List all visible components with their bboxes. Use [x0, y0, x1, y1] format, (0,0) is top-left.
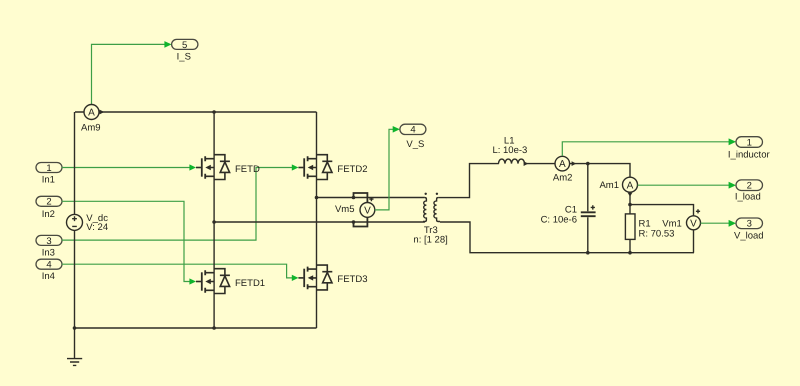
- svg-text:V_S: V_S: [406, 139, 424, 150]
- svg-text:FETD3: FETD3: [337, 274, 367, 285]
- junction dot bottom bus / left leg: [212, 326, 216, 330]
- svg-text:A: A: [627, 180, 634, 191]
- svg-text:3: 3: [747, 219, 752, 230]
- capacitor C1 branch: [541, 164, 596, 253]
- svg-text:I_inductor: I_inductor: [728, 150, 770, 161]
- transformer Tr3 labels: [413, 225, 447, 245]
- wire: right leg midpoint to transformer primary top: [317, 197, 425, 199]
- svg-text:A: A: [88, 108, 95, 119]
- svg-text:A: A: [559, 159, 566, 170]
- input port In2: [36, 196, 62, 220]
- wire: secondary bottom lead and output bottom rail: [440, 222, 694, 253]
- output port 3 (V_load): [734, 218, 764, 242]
- wire: green Am1 to port 2: [638, 182, 736, 189]
- wire: Vm5 output to port 4: [375, 126, 400, 210]
- wire: Am1 down to node with direction arrow: [629, 192, 631, 205]
- transformer Tr3 primary winding: [423, 193, 427, 222]
- svg-text:I_S: I_S: [177, 52, 191, 63]
- wire: green Am2 to port 1: [562, 138, 736, 156]
- svg-text:1: 1: [747, 138, 752, 149]
- svg-text:n: [1 28]: n: [1 28]: [413, 234, 447, 245]
- wire: top DC bus: [75, 111, 317, 113]
- junction dot R1 bottom: [628, 251, 632, 255]
- current direction arrow after Am9: [100, 110, 105, 115]
- node junction below Am1: [628, 203, 632, 207]
- wire: left leg midpoint to transformer primary bottom: [214, 221, 425, 223]
- junction dot Vm5 bottom: [352, 220, 356, 224]
- voltmeter Vm5: [335, 203, 375, 218]
- svg-text:FETD: FETD: [235, 164, 260, 175]
- junction dot C1 bottom: [586, 251, 590, 255]
- MOSFET FETD3 (bottom-right): [298, 265, 367, 290]
- svg-text:4: 4: [410, 125, 415, 136]
- svg-text:2: 2: [747, 181, 752, 192]
- wire: In3 to FETD2 gate: [62, 164, 299, 240]
- output port 5 (I_S): [172, 39, 198, 62]
- svg-text:Vm5: Vm5: [335, 204, 355, 215]
- svg-text:FETD2: FETD2: [337, 164, 367, 175]
- junction dot right leg midpoint: [315, 196, 319, 200]
- output port 4 (V_S): [400, 124, 426, 150]
- wire: L1 to Am2 with direction arrow: [524, 163, 555, 165]
- junction dot Vm5 top: [352, 196, 356, 200]
- wire: secondary top lead up to L1: [438, 164, 499, 198]
- MOSFET FETD1 (bottom-left): [196, 269, 265, 294]
- voltmeter Vm5 terminal brackets: [354, 193, 368, 227]
- input port In1: [36, 163, 62, 186]
- MOSFET FETD2 (top-right): [298, 155, 367, 180]
- svg-text:2: 2: [46, 197, 51, 208]
- input port In3: [36, 235, 62, 258]
- svg-text:V: 24: V: 24: [86, 222, 108, 233]
- voltmeter Vm1: [662, 209, 700, 230]
- input port In4: [36, 259, 62, 282]
- svg-text:In1: In1: [42, 175, 55, 186]
- svg-text:3: 3: [46, 236, 51, 247]
- svg-text:V_load: V_load: [734, 231, 764, 242]
- wire: In2 to FETD1 gate: [62, 201, 196, 284]
- resistor R1: [625, 205, 674, 253]
- junction dot C1 top: [586, 162, 590, 166]
- svg-text:In2: In2: [42, 209, 55, 220]
- wire: In4 to FETD3 gate: [62, 264, 299, 281]
- DC voltage source V_dc: [67, 213, 109, 233]
- svg-text:V: V: [364, 205, 371, 216]
- svg-text:Vm1: Vm1: [662, 219, 682, 230]
- junction dot top bus / left leg: [212, 110, 216, 114]
- svg-text:C: 10e-6: C: 10e-6: [541, 215, 577, 226]
- svg-text:5: 5: [182, 40, 187, 51]
- wire: green from Am9 up to port 5: [92, 41, 172, 104]
- inductor L1: [492, 135, 527, 163]
- svg-text:L: 10e-3: L: 10e-3: [492, 145, 527, 156]
- wire: bottom DC bus: [75, 327, 317, 329]
- transformer Tr3 secondary winding: [434, 193, 440, 222]
- svg-text:In3: In3: [42, 247, 55, 258]
- svg-text:Am1: Am1: [599, 180, 619, 191]
- ammeter Am9: [81, 105, 101, 134]
- svg-text:4: 4: [46, 260, 51, 271]
- wire: right bridge leg: [316, 112, 318, 328]
- wire: green Vm1 to port 3: [701, 220, 737, 227]
- svg-text:I_load: I_load: [735, 191, 761, 202]
- wire: node to Vm1 top: [630, 205, 694, 216]
- svg-text:Am9: Am9: [81, 122, 101, 133]
- wire: left bridge leg: [213, 112, 215, 328]
- svg-text:1: 1: [46, 163, 51, 174]
- ammeter Am2: [553, 156, 573, 183]
- ammeter Am1: [599, 177, 637, 192]
- wire: Vm1 bottom to rail: [693, 230, 695, 253]
- svg-text:R: 70.53: R: 70.53: [639, 229, 675, 240]
- wire: left source rail: [74, 112, 76, 328]
- wire: In1 to FETD gate: [62, 164, 196, 170]
- ground: [67, 328, 82, 365]
- wire: Am2 to Am1 corner with direction arrow: [570, 164, 630, 178]
- MOSFET FETD (top-left): [196, 155, 260, 180]
- svg-text:V: V: [690, 218, 697, 229]
- output port 2 (I_load): [735, 180, 763, 203]
- junction dot bottom bus left: [73, 326, 77, 330]
- svg-text:FETD1: FETD1: [235, 278, 265, 289]
- Vm5 plus marker: [369, 197, 373, 201]
- svg-text:In4: In4: [42, 271, 55, 282]
- output port 1 (I_inductor): [728, 137, 770, 161]
- junction dot left leg midpoint: [212, 220, 216, 224]
- svg-text:Am2: Am2: [553, 172, 573, 183]
